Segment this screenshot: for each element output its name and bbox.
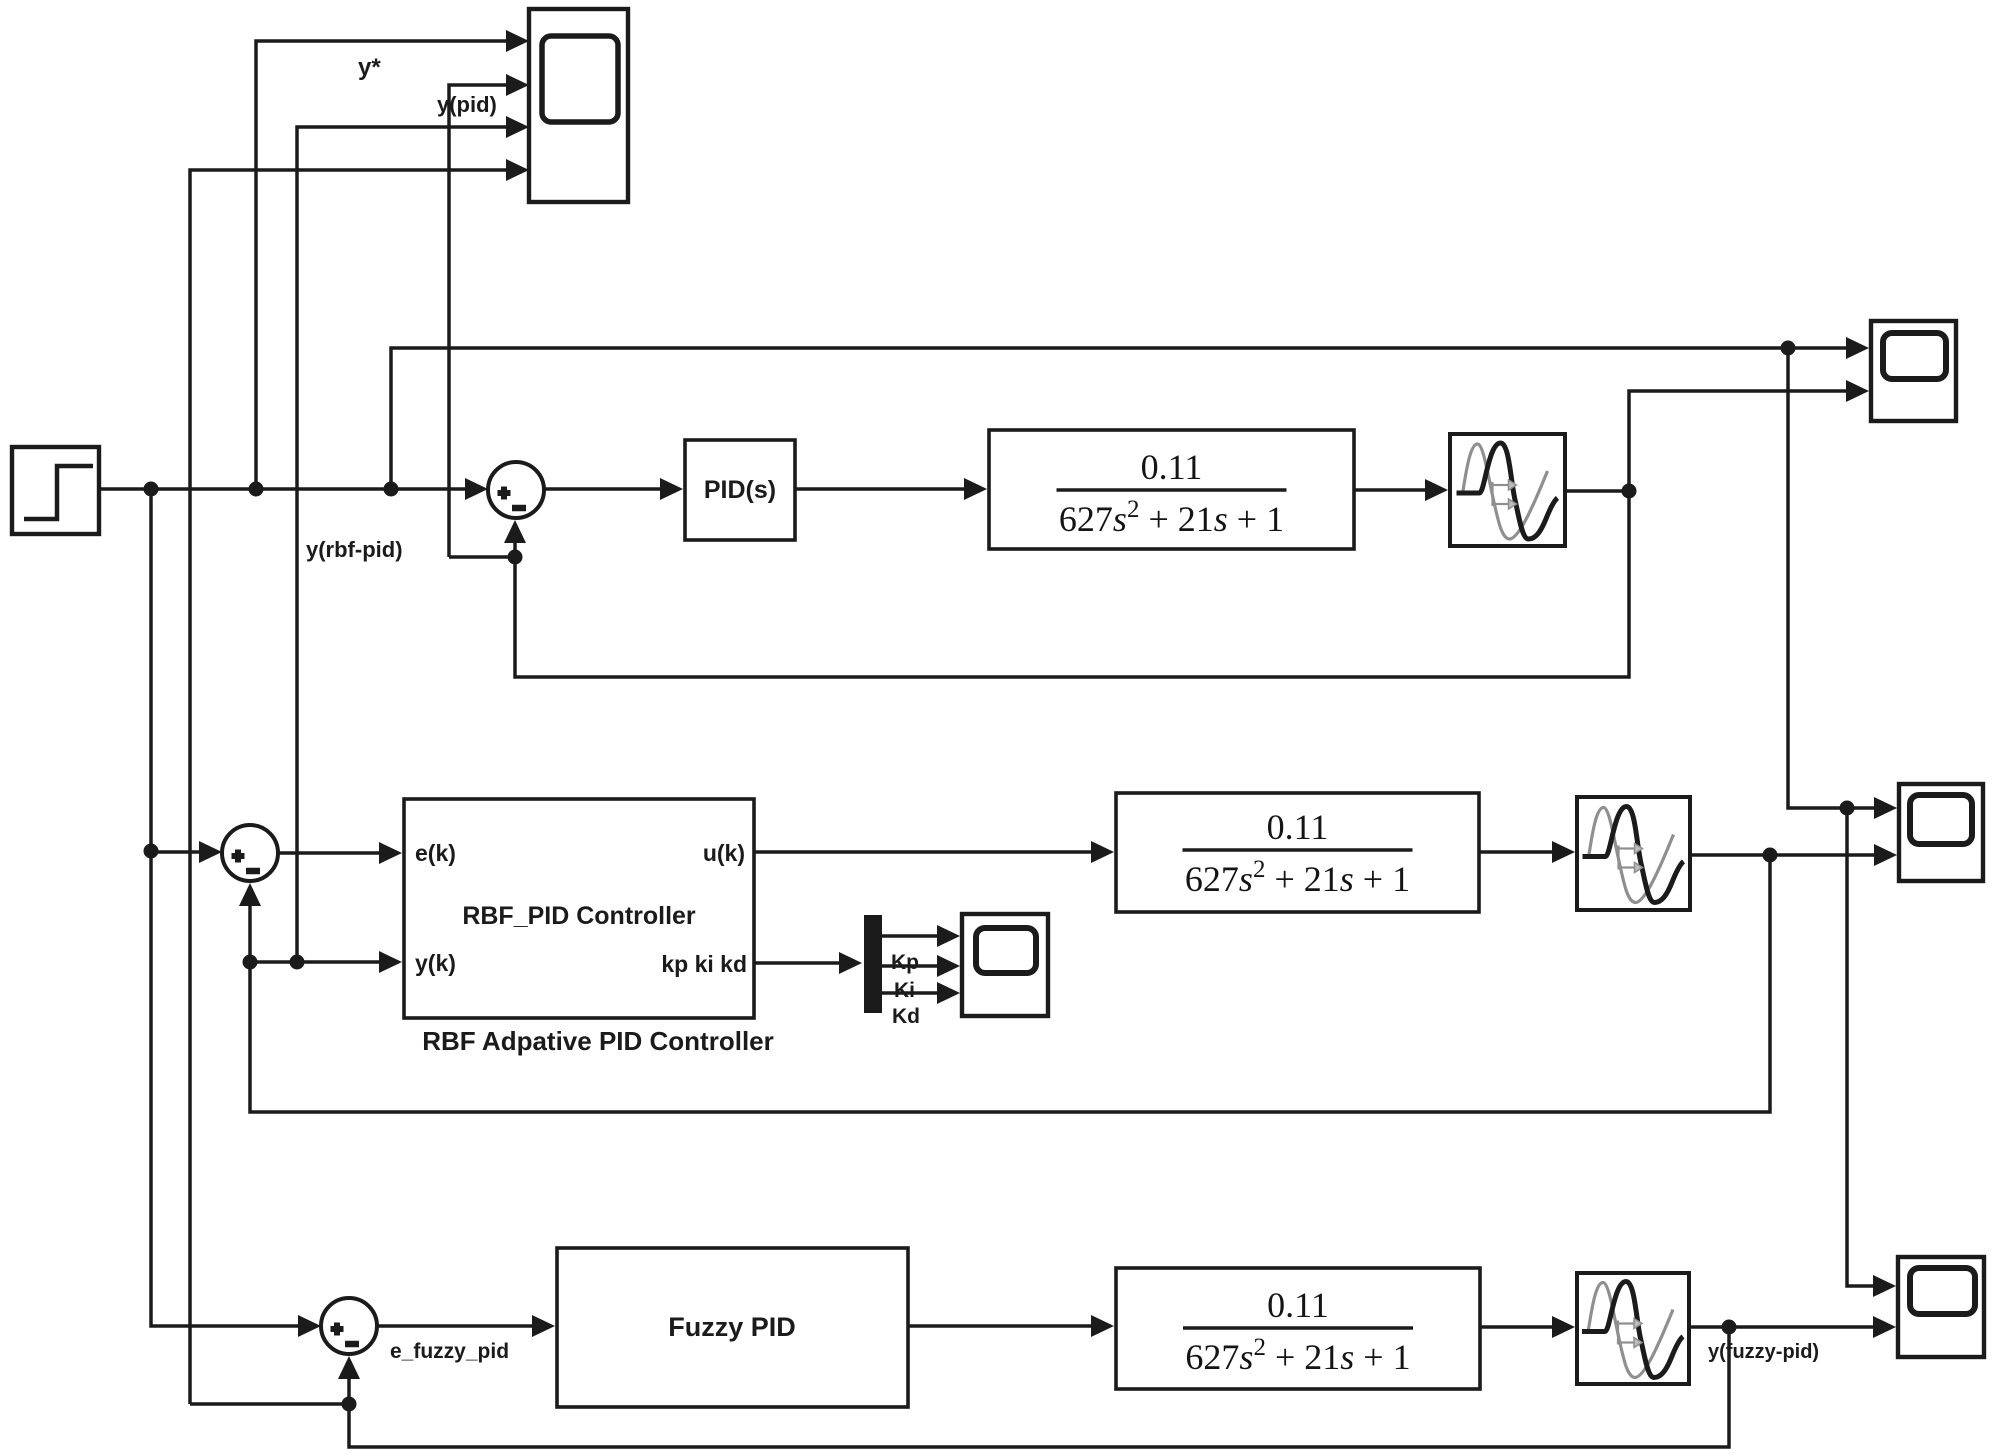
svg-text:627s2 + 21s + 1: 627s2 + 21s + 1 bbox=[1185, 1334, 1410, 1377]
sum block Sum3 bbox=[321, 1298, 377, 1354]
transfer function block plant1 0.11/(627s^2+21s+1) bbox=[989, 430, 1354, 549]
wire Demux out Kd bbox=[882, 982, 960, 1004]
svg-text:627s2 + 21s + 1: 627s2 + 21s + 1 bbox=[1059, 496, 1284, 539]
wire plant1 to Saturation1 bbox=[1354, 479, 1448, 501]
scope block Scope3 (row 2 right, RBF loop) bbox=[1899, 784, 1983, 881]
sum block Sum2 bbox=[222, 825, 278, 881]
wire y(rbf-pid) feedback to Sum2 minus input bbox=[239, 855, 1770, 1112]
label y(fuzzy-pid) bbox=[1708, 1341, 1819, 1363]
label y(pid) bbox=[437, 92, 497, 117]
scope block Scope (4-input, top center) bbox=[529, 9, 628, 202]
wire y* across top to Scope1 input 1 bbox=[391, 337, 1869, 489]
wire Saturation1 output y(pid) bbox=[1565, 489, 1629, 493]
label y* bbox=[358, 54, 381, 81]
wire plant3 to Saturation3 bbox=[1480, 1316, 1575, 1338]
svg-text:RBF_PID Controller: RBF_PID Controller bbox=[462, 902, 696, 930]
saturation block Saturation1 bbox=[1450, 434, 1565, 546]
wire Sum2 to RBF e(k) bbox=[278, 842, 402, 864]
junction y* line x=1788 bbox=[1781, 341, 1796, 356]
svg-text:y(fuzzy-pid): y(fuzzy-pid) bbox=[1708, 1341, 1819, 1363]
wire PID(s) to plant1 bbox=[795, 478, 987, 500]
label Kp bbox=[891, 951, 919, 974]
wire y* up to top scope input 1 bbox=[256, 30, 529, 489]
transfer function block plant2 0.11/(627s^2+21s+1) bbox=[1116, 793, 1479, 912]
junction main line x=151 bbox=[144, 482, 159, 497]
wire Demux out Ki bbox=[882, 955, 960, 977]
svg-text:0.11: 0.11 bbox=[1267, 807, 1329, 847]
junction main line x=256 bbox=[249, 482, 264, 497]
wire Sum1 to PID(s) bbox=[544, 478, 683, 500]
junction y* line x=1847 bbox=[1840, 801, 1855, 816]
svg-text:PID(s): PID(s) bbox=[704, 476, 776, 504]
wire Sum3 to Fuzzy PID bbox=[377, 1315, 555, 1337]
subsystem block RBF_PID Controller bbox=[404, 799, 754, 1018]
svg-text:y(pid): y(pid) bbox=[437, 92, 497, 117]
label Kd bbox=[892, 1005, 920, 1028]
wire feedback branch to top scope column bbox=[190, 1402, 349, 1406]
junction main line x=391 bbox=[384, 482, 399, 497]
junction y(rbf-pid) scope branch bbox=[290, 955, 305, 970]
wire y(rbf-pid) up to top scope input 3 bbox=[297, 116, 529, 962]
wire y(fuzzy-pid) up to top scope input 4 bbox=[190, 159, 529, 1404]
wire reference to Sum2 plus input bbox=[151, 841, 222, 863]
svg-text:u(k): u(k) bbox=[703, 840, 745, 866]
wire reference down left column to Sum3 bbox=[151, 489, 321, 1337]
svg-text:0.11: 0.11 bbox=[1141, 447, 1203, 487]
wire y(pid) feedback to Sum1 minus input bbox=[504, 491, 1629, 677]
junction y(fuzzy-pid) feedback node bbox=[342, 1397, 357, 1412]
subsystem block Fuzzy PID bbox=[557, 1248, 908, 1407]
junction y(pid) output node bbox=[1622, 484, 1637, 499]
svg-text:627s2 + 21s + 1: 627s2 + 21s + 1 bbox=[1185, 856, 1410, 899]
wire y* down to Scope3 input 1 bbox=[1847, 808, 1896, 1297]
saturation block Saturation3 bbox=[1577, 1273, 1689, 1384]
junction y(pid) feedback node bbox=[508, 550, 523, 565]
wire u(k) to plant2 bbox=[754, 841, 1114, 863]
wire RBF kp ki kd to Demux bbox=[754, 952, 862, 974]
wire y* down to Scope2 input 1 bbox=[1788, 348, 1897, 819]
wire Fuzzy PID to plant3 bbox=[908, 1315, 1114, 1337]
junction x=151 Sum2 branch bbox=[144, 844, 159, 859]
wire Saturation3 output y(fuzzy-pid) to Scope4 input 2 bbox=[1689, 1316, 1896, 1338]
wire Demux out Kp bbox=[882, 925, 960, 947]
label y(rbf-pid) bbox=[306, 537, 403, 562]
wire y(pid) up to Scope1 input 2 bbox=[1629, 380, 1869, 491]
svg-text:y*: y* bbox=[358, 54, 381, 81]
junction y(rbf-pid) output node bbox=[1763, 848, 1778, 863]
wire y(pid) up to top scope input 2 bbox=[449, 74, 529, 557]
wire y(fuzzy-pid) feedback to Sum3 minus input bbox=[338, 1327, 1729, 1447]
label Ki bbox=[894, 979, 915, 1002]
svg-text:RBF Adpative PID Controller: RBF Adpative PID Controller bbox=[422, 1026, 774, 1056]
wire y(pid) branch to top scope column bbox=[449, 555, 515, 559]
saturation block Saturation2 bbox=[1577, 797, 1690, 910]
svg-text:e_fuzzy_pid: e_fuzzy_pid bbox=[390, 1340, 509, 1363]
svg-text:Kd: Kd bbox=[892, 1005, 920, 1028]
svg-text:kp ki kd: kp ki kd bbox=[661, 951, 747, 977]
scope block Scope2 (kp ki kd, small) bbox=[962, 914, 1048, 1016]
wire plant2 to Saturation2 bbox=[1479, 841, 1575, 863]
demux block Demux bbox=[864, 915, 882, 1013]
scope block Scope4 (bottom right, fuzzy loop) bbox=[1898, 1257, 1984, 1357]
svg-text:e(k): e(k) bbox=[415, 840, 456, 866]
junction y(rbf-pid) feedback node bbox=[243, 955, 258, 970]
label RBF Adpative PID Controller bbox=[422, 1026, 774, 1056]
svg-text:y(k): y(k) bbox=[415, 950, 456, 976]
wire step output main reference line bbox=[99, 478, 488, 500]
wire Saturation2 output y(rbf-pid) to Scope2 input 2 bbox=[1690, 844, 1897, 866]
wire feedback to RBF y(k) bbox=[250, 951, 402, 973]
svg-text:y(rbf-pid): y(rbf-pid) bbox=[306, 537, 403, 562]
transfer function block plant3 0.11/(627s^2+21s+1) bbox=[1116, 1268, 1480, 1389]
junction y(fuzzy-pid) output node bbox=[1722, 1320, 1737, 1335]
PID controller block PID(s) bbox=[685, 440, 795, 540]
svg-text:Kp: Kp bbox=[891, 951, 919, 974]
label e_fuzzy_pid bbox=[390, 1340, 509, 1363]
svg-text:0.11: 0.11 bbox=[1267, 1285, 1329, 1325]
sum block Sum1 bbox=[488, 462, 544, 518]
step source block Step bbox=[12, 447, 99, 534]
svg-text:Ki: Ki bbox=[894, 979, 915, 1002]
svg-text:Fuzzy PID: Fuzzy PID bbox=[668, 1312, 796, 1342]
scope block Scope1 (top right, PID loop) bbox=[1871, 321, 1956, 421]
